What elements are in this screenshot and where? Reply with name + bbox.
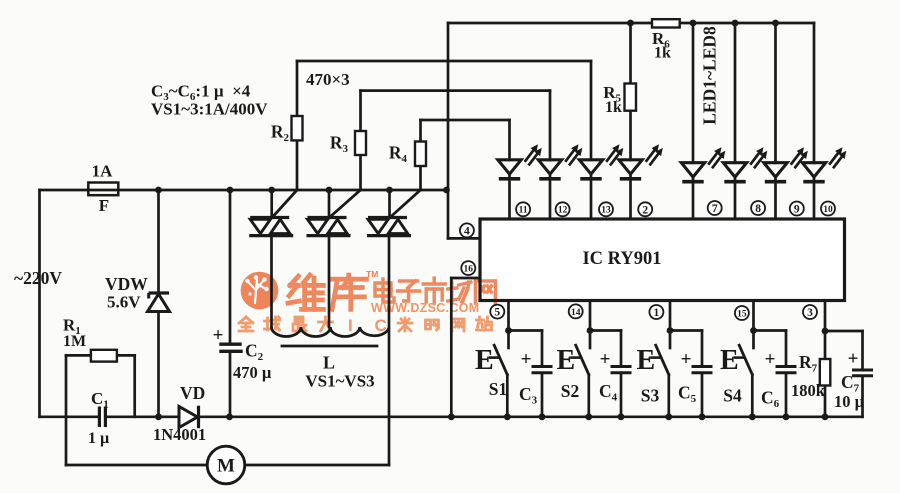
pin 15 xyxy=(735,306,749,320)
wire pin lead for S2 stage xyxy=(589,301,592,349)
watermark text 维库 xyxy=(288,275,323,309)
switch S3 xyxy=(656,345,669,374)
svg-text:~220V: ~220V xyxy=(14,268,62,288)
wire bottom neutral/common rail (left of C1) xyxy=(40,415,100,418)
resistor R3 470 xyxy=(359,91,362,190)
LED LED5 xyxy=(692,23,695,219)
junction dots bottom rail xyxy=(155,413,162,420)
wire R2 to LED3 xyxy=(297,60,591,63)
junction dots top rail xyxy=(627,20,634,27)
svg-text:VD: VD xyxy=(180,383,205,403)
svg-text:S1: S1 xyxy=(489,379,507,399)
resistor R7 180k xyxy=(820,359,831,386)
junction dots AC rail xyxy=(155,187,162,194)
resistor R5 1k xyxy=(629,23,632,219)
svg-text:5.6V: 5.6V xyxy=(107,293,141,312)
svg-text:14: 14 xyxy=(571,308,581,318)
svg-text:+: + xyxy=(213,325,224,346)
wire bottom neutral/common rail (right of C1) xyxy=(105,415,862,418)
IC RY901 xyxy=(480,219,845,301)
svg-text:13: 13 xyxy=(601,206,611,216)
pin 12 xyxy=(556,202,570,216)
svg-text:+: + xyxy=(600,349,611,370)
wire R1 loop left vertical xyxy=(65,355,68,465)
svg-text:1A: 1A xyxy=(92,162,114,181)
thyristor VS1 xyxy=(270,190,273,218)
watermark text 电子市场网 xyxy=(375,279,394,302)
wire S3 stage node branch xyxy=(670,329,702,332)
svg-text:VDW: VDW xyxy=(105,274,148,294)
svg-text:180k: 180k xyxy=(791,381,826,400)
wire pin 3 lead xyxy=(824,301,827,417)
wire left AC lead xyxy=(38,190,41,417)
svg-text:1: 1 xyxy=(654,307,660,319)
pin 7 xyxy=(708,201,722,215)
inductor L core line xyxy=(282,345,377,348)
thyristor VS3 xyxy=(388,190,391,218)
zener diode VDW 5.6V xyxy=(157,190,160,417)
svg-text:VS1~3:1A/400V: VS1~3:1A/400V xyxy=(151,100,268,119)
svg-text:S2: S2 xyxy=(561,381,579,401)
pin 13 xyxy=(599,202,613,216)
thyristor VS2 xyxy=(328,190,331,218)
svg-text:E: E xyxy=(720,345,739,376)
svg-text:4: 4 xyxy=(464,225,470,237)
svg-text:L: L xyxy=(323,353,335,373)
svg-text:16: 16 xyxy=(464,265,474,275)
wire AC live rail xyxy=(40,189,449,192)
wire S4 stage node branch xyxy=(754,329,787,332)
svg-text:10: 10 xyxy=(823,205,833,215)
svg-text:1N4001: 1N4001 xyxy=(153,425,206,444)
svg-text:+: + xyxy=(765,349,776,370)
LED LED6 xyxy=(734,23,737,219)
svg-text:+: + xyxy=(681,349,692,370)
pin 16 xyxy=(461,261,475,275)
svg-text:2: 2 xyxy=(642,204,648,216)
svg-text:I: I xyxy=(348,316,353,335)
wire top supply rail xyxy=(448,22,814,25)
pin 8 xyxy=(751,201,765,215)
wire S2 stage node branch xyxy=(590,329,621,332)
wire VS1 cathode lead xyxy=(270,236,273,327)
capacitor C1 1u xyxy=(98,407,101,428)
LED LED7 xyxy=(774,23,777,219)
pin 4 xyxy=(460,223,474,237)
watermark slogan row xyxy=(239,317,253,331)
svg-text:1k: 1k xyxy=(654,45,671,62)
wire VS3 cathode to motor line xyxy=(388,236,391,465)
capacitor C2 470u xyxy=(229,190,232,344)
wire vertical from top rail to pin 4 xyxy=(447,23,450,238)
svg-text:8: 8 xyxy=(755,203,761,215)
svg-text:12: 12 xyxy=(558,206,568,216)
pin 10 xyxy=(821,202,835,216)
wire pin 4 lead xyxy=(448,237,480,240)
LED LED8 xyxy=(813,23,816,219)
svg-text:11: 11 xyxy=(519,206,528,216)
wire pin lead for S1 stage xyxy=(507,301,510,349)
svg-text:1M: 1M xyxy=(63,333,86,350)
capacitor C7 10u xyxy=(861,331,864,369)
pin 14 xyxy=(569,304,583,318)
resistor R1 1M xyxy=(91,350,117,362)
wire motor line right xyxy=(245,464,389,467)
switch S1 xyxy=(494,345,507,374)
pin 11 xyxy=(516,202,530,216)
pin 5 xyxy=(490,305,504,319)
LED LED2 xyxy=(549,91,552,219)
capacitor C5 xyxy=(701,331,704,367)
fuse F 1A xyxy=(88,183,118,196)
wire motor line left xyxy=(66,464,207,467)
svg-text:5: 5 xyxy=(494,307,500,319)
svg-text:VS1~VS3: VS1~VS3 xyxy=(305,372,374,391)
svg-text:7: 7 xyxy=(712,203,718,215)
svg-text:WWW.DZSC.COM: WWW.DZSC.COM xyxy=(371,301,479,315)
svg-text:S3: S3 xyxy=(641,386,660,406)
pin 2 xyxy=(638,202,652,216)
wire pin 16 to bottom rail xyxy=(450,278,453,417)
resistor R4 470 xyxy=(419,120,422,190)
capacitor C6 xyxy=(785,331,788,367)
switch S2 xyxy=(576,345,589,374)
svg-text:E: E xyxy=(475,345,494,376)
LED LED1 xyxy=(508,120,511,219)
wire S1 stage node branch xyxy=(509,329,543,332)
junction dots stage nodes xyxy=(505,327,512,334)
svg-text:E: E xyxy=(557,345,576,376)
pin 9 xyxy=(790,202,804,216)
svg-text:+: + xyxy=(521,349,532,370)
switch S4 xyxy=(739,345,752,374)
svg-text:F: F xyxy=(99,196,109,215)
wire R1 loop top xyxy=(66,354,135,357)
svg-text:470×3: 470×3 xyxy=(306,70,350,89)
wire C7 branch xyxy=(825,330,863,333)
svg-text:10 µ: 10 µ xyxy=(834,392,865,411)
svg-text:S4: S4 xyxy=(723,386,742,406)
svg-text:1 µ: 1 µ xyxy=(88,430,109,447)
pin 3 xyxy=(803,305,817,319)
svg-text:+: + xyxy=(848,349,859,370)
wire pin 16 lead xyxy=(451,277,480,280)
wire R4 to LED1 xyxy=(421,119,510,122)
capacitor C4 xyxy=(620,331,623,367)
wire R1 loop right vertical xyxy=(133,355,136,416)
svg-text:15: 15 xyxy=(737,309,747,319)
watermark logo ball xyxy=(241,272,279,310)
wire R3 to LED2 xyxy=(361,89,551,92)
wire VS2 cathode lead xyxy=(328,236,331,327)
diode VD 1N4001 xyxy=(180,408,197,427)
svg-text:3: 3 xyxy=(807,307,813,319)
resistor R2 470 xyxy=(296,61,299,190)
resistor R6 1k xyxy=(652,19,680,27)
LED LED3 xyxy=(590,61,593,219)
pin 1 xyxy=(649,305,663,319)
svg-text:1k: 1k xyxy=(605,99,622,116)
svg-text:M: M xyxy=(217,456,235,477)
IC RY901 body xyxy=(480,219,845,301)
inductor L coil xyxy=(272,327,389,337)
svg-text:IC RY901: IC RY901 xyxy=(582,249,661,269)
svg-text:9: 9 xyxy=(794,204,800,216)
capacitor C3 xyxy=(541,331,544,367)
svg-text:TM: TM xyxy=(366,269,378,279)
motor M xyxy=(207,446,245,484)
wire pin lead for S4 stage xyxy=(752,301,755,349)
svg-text:LED1~LED8: LED1~LED8 xyxy=(700,26,720,125)
LED LED4 xyxy=(621,161,641,172)
svg-text:E: E xyxy=(637,345,656,376)
wire pin lead for S3 stage xyxy=(669,301,672,349)
svg-text:470 µ: 470 µ xyxy=(233,363,272,382)
